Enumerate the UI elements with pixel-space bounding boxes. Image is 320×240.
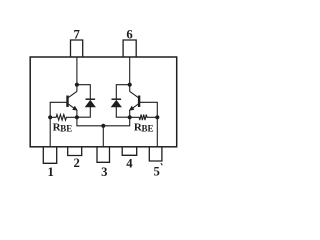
node: left base-resistor junction [48,115,52,119]
wire: pin 7 to collector node [76,57,78,85]
svg-text:2: 2 [74,156,80,170]
pin 2 lead (bottom, short) [68,147,82,156]
transistor Q2 (right NPN, mirrored) [138,96,140,108]
pin 5 lead (bottom) [149,147,162,161]
wire: collector node down to Q1 collector [76,85,78,92]
pin 3 lead (bottom) [97,147,110,163]
wire: D2 anode to emitter node [116,107,129,117]
pin 4 lead (bottom, short) [122,147,137,156]
node: left emitter junction [75,115,79,119]
wire: Q2 emitter down [129,110,131,117]
svg-text:7: 7 [74,28,81,42]
pin 6 lead (top right) [123,40,136,57]
node: left collector junction [75,83,79,87]
svg-text:BE: BE [142,123,154,133]
svg-text:5: 5 [154,164,160,178]
wire: collector node down to Q2 collector [129,85,131,92]
node: right base-resistor junction [155,115,159,119]
svg-text:6: 6 [126,28,132,42]
pin 1 lead (bottom) [43,147,56,164]
wire: rail center down to pin 3 [102,126,104,147]
svg-text:1: 1 [48,165,54,179]
wire: left base to pin 1 [49,117,51,147]
resistor RBE (left) [50,115,77,121]
wire: right base to pin 5 [156,117,158,147]
node: right collector junction [128,83,132,87]
resistor RBE (right) [130,115,158,121]
wire: Q2 base lead [140,102,158,117]
node: right emitter junction [128,115,132,119]
wire: pin 6 to collector node [129,57,131,85]
transistor Q1 (left NPN) [66,96,68,108]
svg-text:3: 3 [101,165,107,179]
svg-text:BE: BE [60,123,72,133]
wire: D1 anode to emitter node [77,107,90,117]
diode D1 (left) [86,98,96,100]
pin 5 prime mark [161,163,162,165]
wire: Q1 base lead [50,102,67,117]
pin 7 lead (top left) [71,40,83,57]
node: emitter rail center junction [101,124,105,128]
package body outline [30,57,177,147]
wire: collector node to diode D2 cathode [116,85,129,99]
svg-text:4: 4 [126,156,133,170]
wire: Q1 emitter down [76,110,78,117]
wire: emitter rail to pin 3 [77,117,130,126]
diode D2 (right) [112,98,122,100]
wire: collector node to diode D1 cathode [77,85,90,99]
